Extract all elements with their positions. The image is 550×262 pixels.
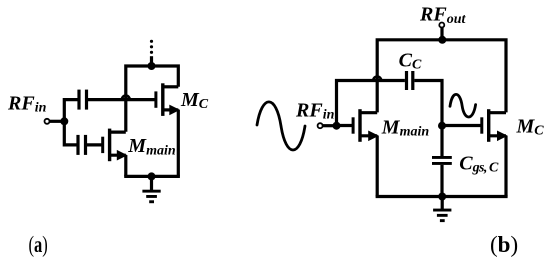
wire hop: gate wire crossing over drain wire (a) (122, 96, 130, 100)
svg-text:Cgs, C: Cgs, C (459, 152, 499, 175)
wire: M_main (b) source down to bottom rail (376, 136, 379, 197)
wire: top rail (a) (126, 66, 179, 132)
wire: bottom rail (b) (376, 195, 508, 198)
wire: input stub (a) (50, 120, 62, 123)
wire: from C_C right plate down to M_C gate node (414, 81, 442, 126)
wire: input stub to node (b) (323, 124, 334, 127)
input terminal circle RFin (a) (45, 119, 50, 124)
svg-text:(a): (a) (29, 232, 48, 257)
svg-text:Mmain: Mmain (127, 135, 176, 158)
svg-text:CC: CC (399, 49, 422, 72)
capacitor lower coupling cap (a) (76, 135, 87, 155)
wire: from input node down to lower cap (a) (64, 121, 77, 145)
node: ground junction dot (b) (438, 193, 446, 201)
wire hop: C_C wire crossing over drain wire (b) (373, 77, 381, 81)
ground (b) (433, 197, 451, 223)
node: bottom rail junction dot (a) (148, 172, 156, 180)
wire: from M_C gate node down to C_gs,C (440, 126, 443, 157)
node: top rail junction dot (a) (148, 62, 156, 70)
transistor M_main (b) (353, 109, 379, 142)
capacitor upper coupling cap (a) (77, 90, 88, 110)
wire: output stub down to top rail (440, 28, 443, 40)
wire: from input node up to upper cap (a) (64, 100, 78, 122)
node: input junction dot (a) (60, 117, 68, 125)
ground (a) (142, 176, 160, 203)
svg-text:(b): (b) (490, 232, 518, 257)
transistor M_main (a) (103, 129, 128, 162)
wire: gate of M_main (a) (87, 143, 103, 146)
transistor M_C (a) (156, 83, 180, 116)
wire: gate of M_C (b) (442, 124, 482, 127)
node: input junction dot (b) (333, 122, 341, 130)
svg-text:RFin: RFin (7, 92, 47, 115)
wire: M_C (a) source down to bottom rail (177, 110, 180, 176)
output terminal circle RFout (439, 23, 444, 28)
node: M_C gate junction dot (438, 122, 446, 130)
wire: C_C branch wire from input node (337, 81, 405, 126)
wire: gate of M_main (b) (337, 124, 354, 127)
input terminal circle RFin (b) (318, 123, 323, 128)
capacitor C_C (405, 71, 415, 90)
wire: bottom rail (a) (124, 175, 180, 178)
AC sine source symbol (input, b) (257, 102, 305, 150)
capacitor C_gs,C (432, 156, 452, 165)
wire: from C_gs,C down to bottom rail (440, 165, 443, 197)
svg-text:MC: MC (180, 89, 209, 112)
wire: M_main (a) source down to bottom rail (124, 155, 127, 176)
dotted supply continuation above top rail (150, 40, 153, 66)
wire: top rail (b) with side verticals to drains (377, 40, 506, 113)
node: RFout junction dot on top rail (438, 36, 446, 44)
svg-text:Mmain: Mmain (381, 116, 430, 139)
svg-text:MC: MC (516, 116, 545, 139)
AC sine ripple at M_C gate (450, 94, 476, 117)
svg-text:RFin: RFin (295, 99, 335, 122)
transistor M_C (b) (482, 109, 508, 142)
wire: M_C (b) source down to bottom rail (504, 136, 507, 197)
wire: gate of M_C (a) from coupling cap (88, 98, 156, 101)
